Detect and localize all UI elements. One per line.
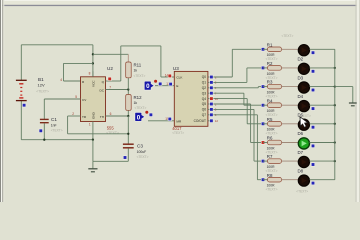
U2 pin1 GND stub xyxy=(92,122,94,140)
state square R4 input xyxy=(261,103,265,107)
svg-text:R7: R7 xyxy=(267,154,273,159)
wire Q0 to R1 xyxy=(214,76,233,78)
logic probe P2 state 0 xyxy=(135,112,145,121)
wire U2 TR pin2 wire xyxy=(68,115,81,117)
wire VCC drop to U2 pin8 xyxy=(92,45,94,77)
state square C3 xyxy=(123,156,127,160)
pin lead R8 to D8 xyxy=(282,179,299,181)
svg-text:VCC: VCC xyxy=(92,80,96,87)
wire Q riser xyxy=(120,46,122,81)
state square R6 input xyxy=(261,141,265,145)
wire cathode rail xyxy=(334,49,336,179)
wire D5 to rail xyxy=(310,123,335,125)
svg-text:12V: 12V xyxy=(38,83,45,88)
state square D8 cathode xyxy=(311,181,315,185)
junction rail row 7 xyxy=(334,160,336,162)
svg-text:U2: U2 xyxy=(107,66,113,71)
svg-text:R1: R1 xyxy=(267,42,273,47)
resistor R6 xyxy=(263,142,268,144)
wire D8 to rail xyxy=(310,179,335,181)
wire D7 to rail xyxy=(310,160,335,162)
window right edge / scrollbar sliver xyxy=(356,0,357,202)
state square D3 cathode xyxy=(311,88,315,92)
capacitor C1 xyxy=(40,118,49,120)
state square battery minus xyxy=(22,103,26,107)
wire U2 TH pin6 wire xyxy=(106,115,129,117)
state square R8 input xyxy=(261,178,265,182)
U2 pin8 VCC stub xyxy=(92,71,94,77)
svg-text:12: 12 xyxy=(215,119,219,123)
svg-text:1k: 1k xyxy=(134,101,138,105)
state square CO/OUT xyxy=(209,119,213,123)
state square MR net xyxy=(149,113,153,117)
junction rail row 2 xyxy=(334,67,336,69)
svg-text:TH: TH xyxy=(100,115,104,119)
state square CLK pin high xyxy=(168,74,172,78)
wire battery+ rail xyxy=(21,44,93,46)
state square R1 input xyxy=(261,47,265,51)
svg-text:D3: D3 xyxy=(298,75,304,80)
pin lead R3 to D3 xyxy=(282,86,299,88)
window left edge xyxy=(0,0,1,202)
LED D7 (off) xyxy=(298,156,309,167)
svg-text:B1: B1 xyxy=(38,77,44,82)
LED D1 (off) xyxy=(298,45,309,56)
resistor R3 xyxy=(263,86,268,88)
wire CLK drop xyxy=(160,46,162,77)
resistor R2 xyxy=(263,67,268,69)
svg-text:Q2: Q2 xyxy=(202,86,206,90)
svg-text:0: 0 xyxy=(137,114,141,121)
junction xyxy=(127,88,129,90)
pin lead R7 to D7 xyxy=(282,160,299,162)
LED D8 (off) xyxy=(298,175,309,186)
svg-text:Q5: Q5 xyxy=(202,102,206,106)
state square E pin xyxy=(169,82,173,86)
svg-text:7: 7 xyxy=(109,85,111,89)
state square R5 input xyxy=(261,122,265,126)
junction rail row 6 xyxy=(334,141,336,143)
wire U2 pin4 R wire xyxy=(64,80,81,82)
svg-text:R11: R11 xyxy=(134,63,142,68)
state square D5 cathode xyxy=(311,125,315,129)
state square D2 cathode xyxy=(311,69,315,73)
wire battery- rail xyxy=(21,139,93,141)
junction xyxy=(92,53,94,55)
svg-text:<TEXT>: <TEXT> xyxy=(36,89,49,93)
state square D4 cathode xyxy=(311,107,315,111)
state square D6 cathode xyxy=(311,144,315,148)
svg-text:<TEXT>: <TEXT> xyxy=(135,106,147,110)
svg-text:1: 1 xyxy=(89,123,91,127)
svg-text:R12: R12 xyxy=(134,95,143,100)
junction rail row 5 xyxy=(334,123,336,125)
LED D4 (off) xyxy=(298,101,309,112)
wire Q3 to R4 xyxy=(214,92,244,94)
pin lead R1 to D1 xyxy=(282,48,299,50)
resistor R8 xyxy=(263,179,268,181)
wire CV drop to C1 xyxy=(43,99,45,119)
junction xyxy=(127,133,129,135)
svg-text:<TEXT>: <TEXT> xyxy=(266,188,278,192)
resistor R12 xyxy=(127,110,129,116)
wire CLK wire xyxy=(161,76,174,78)
wire U3 Q5 stub xyxy=(208,103,214,105)
svg-text:Q6: Q6 xyxy=(202,108,206,112)
state square Q2 xyxy=(209,86,213,90)
LED D2 (off) xyxy=(298,63,309,74)
LED D6 (lit green) xyxy=(298,138,309,149)
wire U3 Q6 stub xyxy=(208,108,214,110)
capacitor C3 xyxy=(123,143,134,145)
wire R11/R12 junction column xyxy=(127,88,129,95)
pin lead R5 to D5 xyxy=(282,123,299,125)
svg-text:MR: MR xyxy=(176,119,182,123)
ground symbol right xyxy=(349,102,357,104)
svg-text:<TEXT>: <TEXT> xyxy=(172,131,184,135)
wire gnd run to C3 xyxy=(93,160,128,162)
wire reset feed top xyxy=(64,62,93,64)
svg-text:D7: D7 xyxy=(298,150,304,155)
wire E pin wire xyxy=(155,85,174,87)
state square D7 cathode xyxy=(311,163,315,167)
wire U2 Q out xyxy=(106,80,121,82)
resistor R5 xyxy=(263,123,268,125)
resistor R1 xyxy=(263,48,268,50)
svg-text:<TEXT>: <TEXT> xyxy=(137,155,149,159)
svg-text:D8: D8 xyxy=(298,168,304,173)
junction xyxy=(92,62,94,64)
resistor R11 xyxy=(127,78,129,90)
wire U3 Q4 stub xyxy=(208,98,214,100)
resistor R7 xyxy=(263,160,268,162)
svg-text:D6: D6 xyxy=(298,131,304,136)
svg-text:Q3: Q3 xyxy=(202,91,206,95)
state square Q7 xyxy=(209,113,213,117)
state square Q4 xyxy=(209,97,213,101)
wire TR drop xyxy=(67,116,69,134)
IC U3 4017 decade counter xyxy=(174,71,208,126)
svg-text:R3: R3 xyxy=(267,80,273,85)
wire R11 top stub xyxy=(127,54,129,62)
wire reset feed drop xyxy=(63,63,65,81)
state square Q6 xyxy=(209,107,213,111)
svg-text:C3: C3 xyxy=(137,143,143,148)
wire U3 Q2 stub xyxy=(208,87,214,89)
svg-text:1k: 1k xyxy=(134,69,138,73)
state square R2 input xyxy=(261,66,265,70)
wire D4 to rail xyxy=(310,104,335,106)
LED D3 (off) xyxy=(298,82,309,93)
wire TR to TH/C3 run xyxy=(68,133,129,135)
state square D1 cathode xyxy=(311,51,315,55)
op-amp/IC U2 555 timer xyxy=(81,77,106,122)
junction xyxy=(43,139,45,141)
svg-text:0: 0 xyxy=(146,83,150,90)
svg-text:<TEXT>: <TEXT> xyxy=(282,34,294,38)
state square MR pin xyxy=(168,117,172,121)
svg-text:U3: U3 xyxy=(173,66,179,71)
wire gnd column xyxy=(92,140,94,162)
state square R3 input xyxy=(261,85,265,89)
probe 2 tip dot xyxy=(145,111,148,114)
svg-text:Q7: Q7 xyxy=(202,113,206,117)
wire gnd stub xyxy=(92,161,94,168)
svg-text:D2: D2 xyxy=(298,57,304,62)
resistor R4 xyxy=(263,104,268,106)
state square Q0 xyxy=(209,75,213,79)
svg-text:<TEXT>: <TEXT> xyxy=(296,190,308,194)
state square R7 input xyxy=(261,159,265,163)
LED D5 (off) xyxy=(298,119,309,130)
svg-text:CLK: CLK xyxy=(176,75,183,79)
state square Q5 xyxy=(209,102,213,106)
svg-text:CO/OUT: CO/OUT xyxy=(194,119,206,123)
state square C1 xyxy=(39,129,43,133)
wire D1 to rail xyxy=(310,48,335,50)
svg-text:R2: R2 xyxy=(267,61,273,66)
svg-text:R4: R4 xyxy=(267,98,273,103)
wire Q1 to R2 xyxy=(214,81,247,83)
junction xyxy=(92,139,94,141)
wire ground drop xyxy=(352,87,354,103)
svg-text:D4: D4 xyxy=(298,94,304,99)
svg-text:<TEXT>: <TEXT> xyxy=(51,128,63,132)
wire Q5 to R6 xyxy=(214,103,251,105)
window top edge xyxy=(0,0,360,1)
svg-text:<TEXT>: <TEXT> xyxy=(134,74,146,78)
wire U3 Q7 stub xyxy=(208,114,214,116)
junction rail row 4 xyxy=(334,104,336,106)
svg-text:DC: DC xyxy=(100,89,105,93)
wire MR pin wire xyxy=(148,120,174,122)
logic probe P1 state 0 xyxy=(144,81,154,90)
junction xyxy=(127,115,129,117)
wire U2 CV pin5 wire xyxy=(44,98,80,100)
svg-text:C1: C1 xyxy=(51,117,57,122)
state square U2 Q high xyxy=(108,77,112,81)
state square E net xyxy=(158,82,162,86)
wire Q7 to R8 xyxy=(214,114,258,116)
svg-text:R5: R5 xyxy=(267,117,273,122)
battery B1 xyxy=(16,45,27,140)
state square Q1 xyxy=(209,80,213,84)
wire rail to R11 xyxy=(93,53,128,55)
wire U3 Q0 stub xyxy=(208,76,214,78)
wire U2 DC pin7 wire xyxy=(106,89,129,91)
svg-text:Q4: Q4 xyxy=(202,97,206,101)
pin lead R2 to D2 xyxy=(282,67,299,69)
wire U3 Q3 stub xyxy=(208,92,214,94)
wire Q to CLK top run xyxy=(121,45,161,47)
svg-text:100uF: 100uF xyxy=(137,150,147,154)
wire column to C3 xyxy=(127,116,129,144)
wire D6 to rail xyxy=(310,142,335,144)
wire Q2 to R3 xyxy=(214,87,259,89)
wire U3 Q1 stub xyxy=(208,81,214,83)
svg-text:Q1: Q1 xyxy=(202,81,206,85)
pin lead R6 to D6 xyxy=(282,142,299,144)
svg-text:555: 555 xyxy=(107,126,115,131)
svg-text:8: 8 xyxy=(89,71,91,75)
wire D2 to rail xyxy=(310,67,335,69)
state square Q3 xyxy=(209,91,213,95)
junction rail row 3 xyxy=(334,85,336,87)
svg-text:E: E xyxy=(176,84,178,88)
svg-text:Q0: Q0 xyxy=(202,75,206,79)
wire Q6 to R7 xyxy=(214,108,255,110)
svg-text:<TEXT>: <TEXT> xyxy=(106,131,119,135)
pin lead R4 to D4 xyxy=(282,104,299,106)
probe 1 tip dot xyxy=(154,80,157,83)
svg-text:1nF: 1nF xyxy=(51,123,57,127)
ground symbol left xyxy=(88,168,97,170)
svg-text:R8: R8 xyxy=(267,173,273,178)
wire rail to ground xyxy=(335,86,353,88)
wire D3 to rail xyxy=(310,86,335,88)
svg-text:4: 4 xyxy=(60,78,62,82)
mouse cursor xyxy=(300,117,308,128)
svg-text:GND: GND xyxy=(92,111,96,119)
wire U3 CO/OUT stub xyxy=(208,120,214,122)
svg-text:R6: R6 xyxy=(267,136,273,141)
wire Q4 to R5 xyxy=(214,98,248,100)
